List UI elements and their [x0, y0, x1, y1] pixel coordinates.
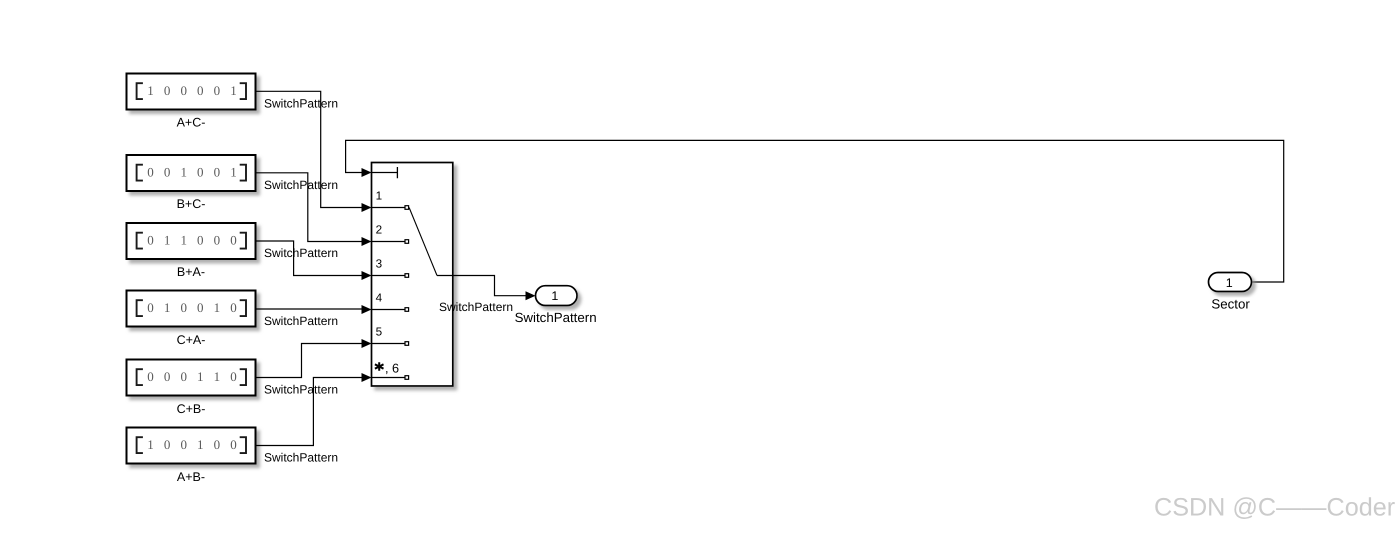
constant block C+B- value [0 0 0 1 1 0] [127, 360, 256, 396]
inport oval Sector [1209, 273, 1252, 292]
port *,6 [372, 361, 409, 379]
svg-text:0: 0 [230, 232, 237, 247]
svg-text:0: 0 [230, 437, 237, 452]
svg-text:SwitchPattern: SwitchPattern [264, 246, 338, 260]
multiport switch block [372, 163, 453, 387]
svg-text:0: 0 [214, 83, 221, 98]
svg-text:1: 1 [230, 83, 237, 98]
svg-text:B+C-: B+C- [177, 197, 206, 211]
port 1 [372, 189, 409, 209]
svg-text:1: 1 [180, 232, 187, 247]
svg-text:SwitchPattern: SwitchPattern [264, 314, 338, 328]
svg-text:SwitchPattern: SwitchPattern [264, 451, 338, 465]
svg-text:5: 5 [376, 325, 383, 338]
svg-text:1: 1 [214, 369, 221, 384]
svg-text:1: 1 [147, 83, 154, 98]
port 2 [372, 223, 409, 243]
svg-text:0: 0 [197, 232, 204, 247]
svg-text:A+B-: A+B- [177, 470, 205, 484]
svg-text:0: 0 [164, 437, 171, 452]
svg-text:0: 0 [230, 369, 237, 384]
svg-text:0: 0 [230, 300, 237, 315]
svg-text:1: 1 [1226, 276, 1233, 290]
svg-text:C+B-: C+B- [177, 402, 206, 416]
svg-text:, 6: , 6 [385, 361, 399, 375]
svg-text:0: 0 [180, 369, 187, 384]
svg-text:0: 0 [164, 369, 171, 384]
svg-text:0: 0 [214, 232, 221, 247]
constant block A+B- value [1 0 0 1 0 0] [127, 428, 256, 464]
svg-text:A+C-: A+C- [177, 116, 206, 130]
wire Sector to control port [346, 140, 1284, 282]
svg-text:3: 3 [376, 257, 383, 270]
constant block A+C- value [1 0 0 0 0 1] [127, 74, 256, 110]
svg-text:0: 0 [197, 164, 204, 179]
svg-text:1: 1 [180, 164, 187, 179]
svg-text:0: 0 [180, 437, 187, 452]
svg-text:1: 1 [551, 289, 558, 303]
port 5 [372, 325, 409, 345]
svg-text:SwitchPattern: SwitchPattern [515, 310, 597, 325]
svg-text:1: 1 [164, 300, 171, 315]
port 3 [372, 257, 409, 277]
wire switch output to SwitchPattern outport [437, 276, 526, 296]
svg-text:1: 1 [147, 437, 154, 452]
control port tick [372, 167, 398, 178]
svg-text:4: 4 [376, 291, 383, 304]
switch selected path (diagonal from port 1) [409, 208, 437, 276]
svg-text:SwitchPattern: SwitchPattern [264, 383, 338, 397]
wire C+B- to port 5 [256, 344, 363, 378]
svg-text:1: 1 [164, 232, 171, 247]
svg-text:1: 1 [197, 369, 204, 384]
svg-text:B+A-: B+A- [177, 265, 205, 279]
svg-text:0: 0 [164, 164, 171, 179]
wire C+A- to port 4 [256, 308, 363, 310]
svg-text:Sector: Sector [1211, 297, 1250, 312]
svg-text:0: 0 [147, 164, 154, 179]
svg-text:1: 1 [197, 437, 204, 452]
wire B+A- to port 3 [256, 241, 363, 276]
constant block B+A- value [0 1 1 0 0 0] [127, 223, 256, 259]
svg-text:0: 0 [180, 300, 187, 315]
wire A+C- to port 1 [256, 91, 363, 207]
svg-text:0: 0 [147, 300, 154, 315]
svg-text:1: 1 [214, 300, 221, 315]
svg-text:SwitchPattern: SwitchPattern [264, 178, 338, 192]
svg-text:0: 0 [197, 300, 204, 315]
svg-text:0: 0 [147, 232, 154, 247]
wire B+C- to port 2 [256, 173, 363, 242]
svg-text:0: 0 [214, 437, 221, 452]
svg-text:0: 0 [180, 83, 187, 98]
outport oval SwitchPattern [536, 286, 578, 306]
svg-text:C+A-: C+A- [177, 333, 206, 347]
svg-text:SwitchPattern: SwitchPattern [439, 300, 513, 314]
wire A+B- to port 6 [256, 378, 363, 446]
svg-text:1: 1 [230, 164, 237, 179]
svg-text:0: 0 [164, 83, 171, 98]
svg-text:CSDN @C——Coder: CSDN @C——Coder [1154, 494, 1395, 522]
constant block C+A- value [0 1 0 0 1 0] [127, 291, 256, 327]
svg-text:1: 1 [376, 189, 383, 202]
svg-text:SwitchPattern: SwitchPattern [264, 96, 338, 110]
svg-text:0: 0 [214, 164, 221, 179]
svg-text:0: 0 [147, 369, 154, 384]
port 4 [372, 291, 409, 311]
svg-text:0: 0 [197, 83, 204, 98]
svg-text:2: 2 [376, 223, 383, 236]
constant block B+C- value [0 0 1 0 0 1] [127, 155, 256, 191]
